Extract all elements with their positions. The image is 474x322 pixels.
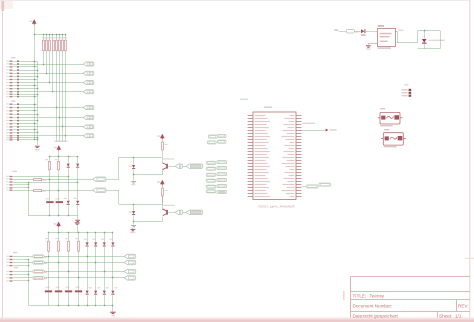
svg-text:TEENSY_lqfp44__PINHEADER: TEENSY_lqfp44__PINHEADER xyxy=(258,205,295,209)
pin U1 R16 xyxy=(296,160,301,162)
junction row B10 xyxy=(37,132,39,134)
resistor R4 xyxy=(53,40,55,51)
component S2 actuator xyxy=(390,137,397,139)
wire pin A6 xyxy=(13,76,17,78)
label R9 xyxy=(45,159,48,160)
wire row B2 to connector xyxy=(19,107,83,109)
pin U1 L10 xyxy=(248,142,253,144)
wire bottom rail top xyxy=(49,232,113,234)
wire R21 top xyxy=(58,233,60,241)
junction row A4 xyxy=(37,70,39,72)
net tag R1 xyxy=(217,161,227,164)
net tag L3 xyxy=(206,173,216,176)
wire X1 to QB1 xyxy=(106,179,119,181)
net tag R3 xyxy=(217,173,227,176)
junction row A9 xyxy=(34,85,36,87)
label S2 name xyxy=(384,129,389,130)
diode D20 xyxy=(86,242,89,246)
label U1 pin L4 name xyxy=(255,124,267,125)
wire column C5 xyxy=(56,51,58,142)
junction row B13 xyxy=(34,139,36,141)
label U1 pin R12 name xyxy=(289,148,295,149)
label U1 pin L14 name xyxy=(255,154,267,155)
capacitor C2 xyxy=(56,201,63,203)
pin U1 R12 xyxy=(296,148,301,150)
connector SVA11 xyxy=(83,90,94,94)
wire column C1 xyxy=(43,51,45,64)
label JP5 header xyxy=(13,252,17,253)
label R12 xyxy=(42,191,45,192)
label C1 xyxy=(45,198,49,199)
junction top rail xyxy=(112,232,114,234)
wire row B3 xyxy=(19,110,37,112)
resistor R21 xyxy=(58,241,60,251)
label U1 pin L2 name xyxy=(255,118,268,119)
junction row A13 xyxy=(34,96,36,98)
wire D11 top xyxy=(68,177,70,201)
label R T1 xyxy=(165,144,168,145)
wire pin B2 xyxy=(13,107,17,109)
label U1 pin R10 name xyxy=(290,142,295,143)
pin U1 L18 xyxy=(248,166,253,168)
diode D12 xyxy=(76,201,79,205)
label R22 xyxy=(65,238,68,239)
wire R10 top xyxy=(58,156,60,161)
pin U1 L3 xyxy=(248,121,253,123)
label net col5 xyxy=(54,141,58,142)
resistor R23 xyxy=(78,241,80,251)
pin S2 right xyxy=(403,138,406,140)
net tag L2 xyxy=(206,167,216,170)
connector SVA2 xyxy=(83,62,94,66)
resistor R3 xyxy=(49,40,51,51)
ground GND1 xyxy=(35,146,40,147)
label U1 pin L25 name xyxy=(255,187,269,188)
junction row A12 xyxy=(37,94,39,96)
diode A12 xyxy=(17,93,19,95)
wire R22 top xyxy=(68,233,70,241)
label D27 xyxy=(114,287,117,288)
wire row A3 xyxy=(19,66,37,68)
wire D23 top xyxy=(112,233,114,242)
label R3 xyxy=(48,37,51,38)
wire pin B3 xyxy=(13,110,17,112)
wire row 7 to pad xyxy=(13,277,33,279)
label D15 xyxy=(361,34,366,35)
wire pin A2 xyxy=(13,64,17,66)
label U1 pin L24 name xyxy=(255,184,267,185)
pin U1 L7 xyxy=(248,133,253,135)
pin U1 L25 xyxy=(248,187,253,189)
net tag P1 xyxy=(208,135,217,138)
svg-text:Sheet:: Sheet: xyxy=(439,313,452,318)
pin S1 left xyxy=(378,117,380,119)
junction row B1 xyxy=(34,104,36,106)
component S2 contacts xyxy=(385,136,403,140)
wire D20 top xyxy=(87,233,89,242)
pin B12 xyxy=(6,137,12,138)
label U1 pin R16 name xyxy=(287,160,295,161)
wire row B1 xyxy=(19,104,37,106)
pin U1 R2 xyxy=(296,118,301,120)
diode B6 xyxy=(17,120,19,122)
capacitor C3 xyxy=(45,290,52,292)
junction row3 D10 xyxy=(77,182,79,184)
junction row 2 bus xyxy=(28,259,30,261)
diode A6 xyxy=(17,76,19,78)
label OUT7 xyxy=(45,278,48,279)
pin B8 xyxy=(6,126,12,127)
label OUT1 xyxy=(45,257,48,258)
pin S2 left xyxy=(381,138,383,140)
diode B1 xyxy=(17,103,19,105)
wire pin A5 xyxy=(13,73,17,75)
pin U1 L17 xyxy=(248,163,253,165)
net tag L6 xyxy=(206,190,216,193)
resistor R22 xyxy=(68,241,70,251)
junction rail R7 xyxy=(62,34,64,36)
wire D26 lower xyxy=(104,295,106,305)
connector SVA8 xyxy=(83,81,94,85)
wire row B5 to connector xyxy=(19,117,83,119)
junction row-col 2a xyxy=(58,262,60,264)
pin U1 L2 xyxy=(248,118,253,120)
svg-text:TITLE:: TITLE: xyxy=(353,294,367,299)
label D12 xyxy=(73,198,77,199)
wire T2 emitter rail xyxy=(134,221,163,223)
wire row 1 to pad xyxy=(13,256,33,258)
wire row R12 right xyxy=(42,190,93,192)
wire pin A1 xyxy=(13,61,17,63)
label C6 xyxy=(76,287,80,288)
diode B7 xyxy=(17,123,19,125)
pin U1 R21 xyxy=(296,175,301,177)
label D20 xyxy=(84,239,87,240)
pin JP56-5 xyxy=(6,271,12,272)
wire T1 pad link xyxy=(183,166,186,168)
pin U1 L9 xyxy=(248,139,253,141)
wire R3 top xyxy=(49,34,51,40)
diode D22 xyxy=(103,242,106,246)
pin JP4-3 xyxy=(401,95,411,97)
wire row A12 xyxy=(19,94,37,96)
frame top border xyxy=(2,0,470,2)
label net col6 xyxy=(57,141,61,142)
wire pin B8 xyxy=(13,126,17,128)
resistor R5 xyxy=(56,40,58,51)
wire R23 bottom xyxy=(78,251,80,290)
label IC2 name xyxy=(378,25,384,27)
frame corner haze xyxy=(0,0,13,9)
label LED1 value xyxy=(429,40,445,41)
diode D27 xyxy=(111,291,114,295)
label T2 xyxy=(163,205,175,206)
junction bottom rail xyxy=(95,305,97,307)
label R23 xyxy=(75,238,78,239)
label JP3 header xyxy=(12,171,17,172)
wire gnd stub r xyxy=(132,228,134,230)
ground GND8 xyxy=(110,312,115,313)
wire up to rail xyxy=(417,31,419,43)
pin B4 xyxy=(6,113,12,114)
resistor R12 xyxy=(34,190,42,192)
wire D9 top xyxy=(68,156,70,163)
pin U1 L21 xyxy=(248,175,253,177)
net tag R5 xyxy=(217,184,227,187)
wire resistor bank rail xyxy=(34,34,65,36)
wire pin A8 xyxy=(13,82,17,84)
junction top rail xyxy=(104,232,106,234)
label GND1 xyxy=(35,149,40,150)
diode A3 xyxy=(17,66,19,68)
label R4 xyxy=(52,37,55,38)
pin U1 R13 xyxy=(296,151,301,153)
junction top rail xyxy=(48,232,50,234)
wire R1 top xyxy=(43,34,45,40)
label U1 pin L5 name xyxy=(255,127,269,128)
label U1 pin L19 name xyxy=(255,169,267,170)
wire row5 xyxy=(13,187,28,189)
pin U1 R5 xyxy=(296,127,301,129)
junction bottom rail xyxy=(112,305,114,307)
connector pad OUT1 xyxy=(33,255,44,258)
resistor R10 xyxy=(58,161,60,170)
label VCC2 xyxy=(54,147,57,148)
+5V supply arrow xyxy=(33,20,36,25)
wire row B12 xyxy=(19,137,37,139)
label VCC1 xyxy=(29,21,32,22)
wire D23 bottom xyxy=(112,247,114,290)
junction row A2 xyxy=(43,64,45,66)
pin U1 R3 xyxy=(296,121,301,123)
junction rail R1 xyxy=(43,34,45,36)
wire pin B13 xyxy=(13,139,17,141)
pin JP3-3 xyxy=(6,181,12,182)
label R11 xyxy=(42,180,45,181)
fuse F1 xyxy=(346,29,354,33)
junction LED rail xyxy=(424,30,426,32)
connector SVB5 xyxy=(83,116,94,120)
wire row 8 short xyxy=(13,280,29,282)
label U1 name xyxy=(264,106,272,108)
wire T1 collector xyxy=(162,150,164,157)
label net AREF xyxy=(303,123,316,124)
label OUT5 xyxy=(45,272,48,273)
wire VCC3 feed xyxy=(58,227,60,233)
label U1 pin L9 name xyxy=(255,139,267,140)
junction row A10 xyxy=(37,88,39,90)
pin U1 R25 xyxy=(296,187,301,189)
label C2 xyxy=(55,198,59,199)
pin U1 R15 xyxy=(296,157,301,159)
label U1 pin L21 name xyxy=(255,175,266,176)
wire R5 top xyxy=(56,34,58,40)
pin JP56-8 xyxy=(6,280,12,281)
connector SVB2 xyxy=(83,106,94,110)
label U1 pin L26 name xyxy=(255,190,266,191)
wire row A2 to connector xyxy=(19,64,83,66)
pin U1 R1 xyxy=(296,115,301,117)
net tag VCC right xyxy=(326,129,329,132)
capacitor C1 xyxy=(46,201,53,203)
pin A9 xyxy=(6,85,12,86)
transistor T1 xyxy=(163,163,168,170)
wire to GND8 xyxy=(112,306,114,312)
component S1 box xyxy=(380,112,400,124)
junction top rail xyxy=(58,232,60,234)
pin U1 L23 xyxy=(248,181,253,183)
wire mid bottom rail xyxy=(28,215,77,217)
pin JP3-4 xyxy=(6,184,12,185)
label S1 value xyxy=(380,125,392,126)
wire D10 top xyxy=(77,156,79,163)
diode A9 xyxy=(17,85,19,87)
frame right tick xyxy=(465,257,474,259)
ground GND4 xyxy=(131,225,136,226)
pin U1 L22 xyxy=(248,178,253,180)
pin U1 L1 xyxy=(248,115,253,117)
diode A5 xyxy=(17,73,19,75)
diode A1 xyxy=(17,60,19,62)
wire pin B10 xyxy=(13,132,17,134)
pin U1 R19 xyxy=(296,169,301,171)
wire T1 emitter xyxy=(162,169,164,176)
pin JP56-6 xyxy=(6,274,12,275)
junction rail R8 xyxy=(65,34,67,36)
wire D14 top xyxy=(133,204,135,211)
wire C2 bottom xyxy=(58,203,60,215)
frame left border top accent xyxy=(2,0,5,11)
junction row-col 4a xyxy=(78,277,80,279)
pin U1 R6 xyxy=(296,130,301,132)
wire IC2 gnd stub xyxy=(368,43,370,45)
pin U1 L11 xyxy=(248,145,253,147)
junction row A1 xyxy=(34,61,36,63)
wire pin A3 xyxy=(13,66,17,68)
wire row B11 to connector xyxy=(19,135,83,137)
frame bottom band xyxy=(0,317,474,319)
label D14 xyxy=(128,211,132,212)
label GND3 xyxy=(131,184,136,185)
wire C6 bottom xyxy=(78,292,80,305)
junction row-col 2b xyxy=(95,262,97,264)
pin U1 R24 xyxy=(296,184,301,186)
wire column C7 xyxy=(62,51,64,142)
junction R10 row xyxy=(58,190,60,192)
wire row R11 left xyxy=(13,179,34,181)
wire D11 bottom xyxy=(68,205,70,215)
wire row B10 xyxy=(19,132,37,134)
wire T2 R top feed xyxy=(162,185,164,188)
junction row B6 xyxy=(37,120,39,122)
pin U1 L26 xyxy=(248,190,253,192)
pin JP4-2 xyxy=(401,92,411,94)
pin JP3-6 xyxy=(6,189,12,190)
diode A4 xyxy=(17,69,19,71)
wire pin A13 xyxy=(13,96,17,98)
resistor R7 xyxy=(62,40,64,51)
wire pin B6 xyxy=(13,120,17,122)
wire LED top xyxy=(424,31,426,39)
label VCC T1 xyxy=(157,135,160,136)
junction top rail xyxy=(78,232,80,234)
pin U1 R26 xyxy=(296,190,301,192)
diode B5 xyxy=(17,117,19,119)
label U1 pin L3 name xyxy=(255,121,270,122)
net tag L4 xyxy=(206,179,216,182)
pin A7 xyxy=(6,79,12,80)
pin JP3-1 xyxy=(6,176,12,177)
label U1 pin R18 name xyxy=(286,166,295,167)
junction SDA D9 xyxy=(68,176,70,178)
wire VCC2 feed xyxy=(58,151,60,157)
wire T2 down xyxy=(162,196,164,210)
pin U1 R27 xyxy=(296,193,301,195)
label R21 xyxy=(55,238,58,239)
pin U1 L27 xyxy=(248,193,253,195)
junction row A6 xyxy=(37,76,39,78)
wire pin A4 xyxy=(13,70,17,72)
wire pin B1 xyxy=(13,104,17,106)
pin S1 right xyxy=(400,117,402,119)
pin U1 R14 xyxy=(296,154,301,156)
diode B2 xyxy=(17,107,19,109)
resistor R6 xyxy=(59,40,61,51)
junction row4 bus xyxy=(28,184,30,186)
wire gnd rail xyxy=(418,48,440,50)
connector SVA5 xyxy=(83,71,94,75)
pin U1 R8 xyxy=(296,136,301,138)
wire D22 bottom xyxy=(104,247,106,290)
label JP1 header xyxy=(11,57,16,58)
connector X2 xyxy=(93,188,106,192)
junction row-col 1a xyxy=(48,256,50,258)
label U1 pin R15 name xyxy=(283,157,295,158)
resistor R11 xyxy=(34,179,42,181)
label U1 pin R9 name xyxy=(286,139,295,140)
wire T2 emitter xyxy=(162,217,164,222)
junction mid rail xyxy=(77,156,79,158)
junction bottom rail xyxy=(58,305,60,307)
wire row B13 xyxy=(19,139,37,141)
wire pin B5 xyxy=(13,117,17,119)
wire QB2 vertical xyxy=(118,190,120,204)
wire T1 out xyxy=(168,166,175,168)
wire T1 base rail xyxy=(119,157,163,159)
wire U1 pad1 xyxy=(301,186,306,188)
pin U1 L14 xyxy=(248,154,253,156)
wire T2 pad link xyxy=(183,212,186,214)
frame right border xyxy=(469,0,471,318)
connector SVB8 xyxy=(83,125,94,129)
label U1 pin R19 name xyxy=(290,169,295,170)
pin JP4-1 xyxy=(401,89,411,91)
label S1 name xyxy=(380,108,385,109)
diode B4 xyxy=(17,113,19,115)
junction row B2 xyxy=(56,107,58,109)
pin U1 L13 xyxy=(248,151,253,153)
connector AP3 xyxy=(124,260,136,264)
wire D14 bottom xyxy=(133,216,135,222)
wire VCC feed / bus A xyxy=(34,25,36,140)
resistor R8 xyxy=(65,40,67,51)
connector pad OUT3 xyxy=(33,261,44,264)
pin U1 L19 xyxy=(248,169,253,171)
wire bottom rail xyxy=(29,305,113,307)
junction bottom rail xyxy=(104,305,106,307)
connector X3 xyxy=(186,164,203,168)
diode D14 xyxy=(132,211,135,215)
